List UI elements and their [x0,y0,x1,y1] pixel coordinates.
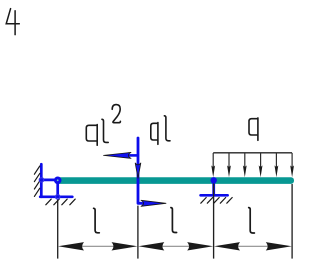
dimension line segment 2 [161,245,191,247]
distributed load arrow 4 [259,153,263,177]
roller support pin [211,177,217,183]
label q (distributed) [249,118,258,140]
dimension arrow roller-right (tip at roller extension) [214,242,240,250]
fixed support pin at beam [54,177,62,185]
beam [57,177,295,184]
fixed support pin at ground [56,195,60,199]
distributed load arrow 1 [211,153,215,177]
distributed load arrow 6 [290,153,294,177]
dimension arrow right to mid (tip at mid extension) [112,242,138,250]
span label l (segment 3) [249,208,255,233]
force ql down arrow head [135,163,141,178]
fixed support ground hatching [46,199,75,205]
distributed load arrow 3 [243,153,247,177]
label ql^2 [86,105,120,146]
fixed support horizontal link [41,179,57,182]
distributed load arrow 2 [227,153,231,177]
problem number 4 [6,9,19,35]
dimension arrow mid-left (tip at mid extension) [138,242,164,250]
dimension line segment 3 [237,245,269,247]
label ql [151,116,170,145]
roller support ground hatching [201,198,232,204]
dimension line segment 1 [81,245,115,247]
fixed support wall line [40,164,43,197]
fixed support pin at wall [39,178,43,182]
span label l (segment 2) [171,208,177,233]
left extension line [57,199,59,258]
mid extension line [137,206,139,259]
roller support ground line [201,194,228,197]
moment/force vertical line [138,138,148,203]
roller extension line [213,184,215,259]
dimension arrow mid-right (tip at roller extension) [187,242,213,250]
moment top arrow (points left) [129,154,139,157]
span label l (segment 1) [94,208,100,233]
dimension arrow far right (tip at right extension) [266,242,292,250]
dimension arrow left (tip at left extension) [58,242,84,250]
fixed support vertical link [56,180,59,197]
distributed load arrow 5 [275,153,279,177]
distributed load top line [213,152,292,154]
moment bottom arrow (points right) [141,200,166,206]
roller support post [212,182,215,195]
fixed support ground line [40,195,72,198]
right extension line [291,184,293,259]
fixed support wall hatching [34,166,39,196]
